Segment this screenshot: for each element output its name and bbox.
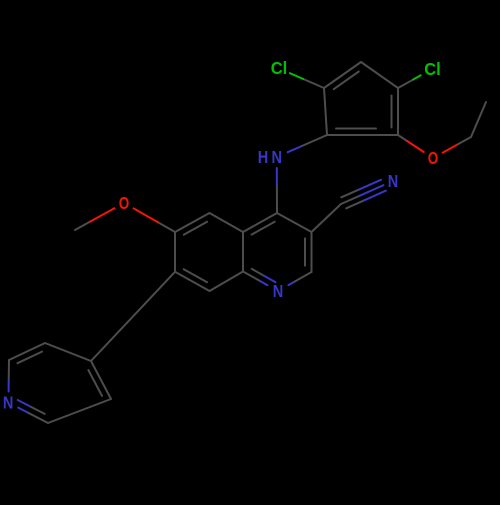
svg-text:N: N [271,147,282,167]
svg-text:H: H [258,147,269,167]
double-bond inner line C2=C3 [304,238,306,265]
bond O-CH3 (methoxy) [75,208,114,230]
bond C7-pyridinyl linker [91,272,175,361]
svg-text:O: O [119,193,130,213]
double-bond inner line C5=C6 [184,222,207,235]
bond C3-C (nitrile stem) [312,204,342,232]
double-bond inner line C4=C4a [252,222,275,235]
bond N=C2'' (pyridine) [18,408,48,423]
bond C1'-C2' (aniline left edge) [324,88,327,135]
bond C4'-Cl (right chlorine) [398,75,421,88]
double-bond inner line C2'=C3' [334,72,359,90]
bond C8-C8a (benzo ring) [210,272,244,292]
double-bond inner line C4'=C5' [391,96,393,128]
double-bond inner line N=C2'' [18,400,45,414]
bond C5=C6 (benzo ring) [175,213,210,232]
bond C6-O (methoxy) [134,208,175,232]
bond C4a-C5 (benzo ring) [210,213,244,232]
bond N1-C2 (quinoline) [288,272,311,285]
bond C5'-C1' (aniline bottom edge) [327,134,398,136]
svg-text:O: O [428,148,439,168]
bond C4=C4a (quinoline) [243,213,277,232]
svg-text:N: N [388,171,399,191]
bond CH2-CH3 (ethoxy) [471,102,486,137]
bond C2'-Cl (left chlorine) [290,73,324,88]
double-bond inner line C7=C8 [184,269,207,282]
bond C4-NH (amine link) [276,168,278,213]
svg-text:Cl: Cl [271,58,288,78]
bond C2''-C3'' (pyridine) [48,399,111,423]
bond O-CH2 (ethoxy) [443,137,471,153]
bond C4''-C5'' (pyridine) [45,343,91,361]
bond C6-C7 (benzo ring) [174,232,176,272]
bond C6''-N (pyridine) [8,360,10,392]
bond NH-C1' (to dichlorophenyl) [288,135,327,152]
double-bond inner line C5''=C6'' [18,352,43,364]
svg-text:Cl: Cl [424,59,441,79]
bond C3-C4 (quinoline) [277,213,312,232]
triple bond C#N (nitrile) [341,180,386,209]
bond C4a-C8a (quinoline fusion) [242,232,244,272]
bond C2=C3 (quinoline) [311,232,313,272]
double-bond inner line C8a=N1 [252,269,276,282]
bond C4'=C5' (aniline right edge) [397,88,399,135]
bond C2'=C3' (aniline top-left) [324,62,361,88]
double-bond inner line (aniline bottom) [336,128,376,130]
bond C5'-O (aryl ether) [398,135,424,152]
bond C3''=C4'' (pyridine) [91,361,111,399]
bond C5''=C6'' (pyridine) [9,343,45,360]
svg-text:N: N [3,393,14,413]
bond C8a=N1 (quinoline) [243,272,268,286]
double-bond inner line C3''=C4'' [88,370,102,396]
bond C3'-C4' (aniline top-right) [361,62,398,88]
svg-text:N: N [273,281,284,301]
bond C7=C8 (benzo ring) [175,272,210,291]
